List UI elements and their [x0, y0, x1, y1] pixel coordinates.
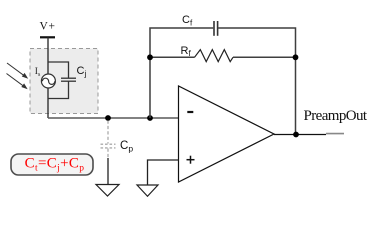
svg-text:Ct=Cj+Cp: Ct=Cj+Cp	[25, 156, 85, 174]
svg-text:PreampOut: PreampOut	[304, 108, 368, 124]
svg-text:Cp: Cp	[120, 140, 133, 154]
svg-text:Cf: Cf	[182, 14, 193, 27]
svg-text:V+: V+	[40, 20, 56, 32]
svg-text:Rf: Rf	[181, 45, 192, 58]
